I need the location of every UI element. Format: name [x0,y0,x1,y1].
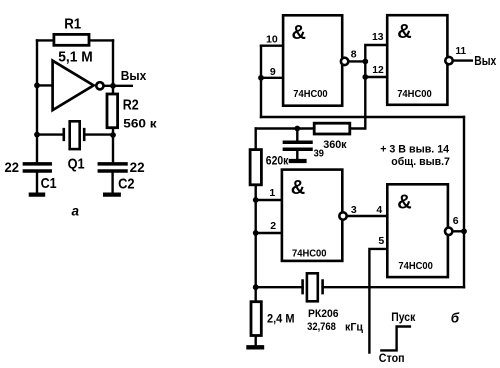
svg-text:Вых: Вых [121,68,147,83]
svg-text:74НС00: 74НС00 [293,89,327,100]
wire C2 to ground [111,173,113,193]
node pin 12 junction [362,74,368,80]
svg-text:R1: R1 [64,16,81,33]
capacitor 39 [284,129,311,160]
wire output 3 to pin 4 [348,215,387,217]
node pin 1 junction [253,197,259,203]
inverter U1 [53,61,104,110]
pin 9 wire [261,77,282,79]
svg-text:C1: C1 [41,175,57,192]
svg-text:4: 4 [376,204,382,216]
wire R1 right lead [91,39,114,41]
svg-text:5,1 М: 5,1 М [58,48,92,65]
svg-text:11: 11 [456,45,467,57]
capacitor C1 [24,164,50,171]
wire 620k bottom rail [254,186,256,287]
svg-text:12: 12 [372,64,384,76]
wire right rail b [463,117,465,287]
svg-text:1: 1 [269,187,275,199]
svg-text:22: 22 [130,160,145,175]
svg-text:74НС00: 74НС00 [397,89,432,100]
svg-text:32,768: 32,768 [307,321,336,333]
node output 6 junction [461,228,467,234]
svg-text:3: 3 [351,204,357,216]
resistor 2.4M [251,302,261,336]
svg-text:6: 6 [453,215,459,227]
svg-text:общ. выв.7: общ. выв.7 [391,156,450,168]
waveform start-stop step [381,327,410,351]
svg-text:&: & [291,177,305,199]
wire left rail circuit a [36,40,38,162]
ground cap 39 [291,159,305,163]
svg-text:РК206: РК206 [308,308,339,320]
svg-text:Q1: Q1 [68,155,85,172]
svg-text:10: 10 [266,33,278,45]
wire output 8 [349,60,365,62]
wire crystal right lead b [323,286,464,288]
svg-text:39: 39 [314,148,324,160]
wire down to 620k [254,129,256,149]
wire to resistor 2.4M [254,287,256,300]
wire crystal Q1 leads [37,133,113,135]
svg-text:&: & [397,21,411,43]
node cap 39 junction [294,126,300,132]
gate U2.3 74HC00 [282,170,347,261]
node 8 junction [362,59,368,65]
crystal ZQ1 PK206 [303,273,323,301]
svg-text:&: & [397,192,411,214]
resistor 360k [314,123,350,134]
wire to pin 13 [365,45,386,61]
wire feedback top rail [261,116,464,118]
node output junction a [110,83,116,89]
svg-text:620к: 620к [266,155,289,167]
gate U2.4 74HC00 [387,184,452,277]
resistor 620k [250,150,261,185]
wire output 6 [453,230,464,232]
node pin 2 junction [253,230,259,236]
node pin 9 junction [258,75,264,81]
node crystal left junction [34,132,40,138]
capacitor C2 [99,164,126,171]
resistor R1 [54,34,89,45]
svg-text:б: б [451,311,460,326]
resistor R2 [107,94,118,128]
wire inverter input [37,84,53,86]
svg-text:Пуск: Пуск [391,312,415,324]
wire right rail circuit a [112,40,114,162]
svg-text:74НС00: 74НС00 [292,249,327,260]
pin 10 wire [261,45,282,47]
svg-text:13: 13 [372,31,384,43]
svg-text:2: 2 [270,220,276,232]
svg-text:+ 3 В выв. 14: + 3 В выв. 14 [380,143,450,155]
svg-text:9: 9 [270,66,276,78]
ground C1 [31,193,43,197]
wire 360k left lead [256,127,313,129]
node inverter input junction [34,83,40,89]
svg-text:C2: C2 [118,176,135,193]
svg-text:R2: R2 [123,96,139,113]
node crystal left junction b [253,284,259,290]
svg-text:8: 8 [351,49,357,61]
svg-text:360к: 360к [323,139,347,151]
ground 2.4M [249,345,263,349]
node R2 bottom junction [110,132,116,138]
pin 2 wire [256,232,281,234]
svg-text:Стоп: Стоп [379,353,405,365]
crystal Q1 [64,121,84,149]
svg-text:22: 22 [5,160,20,175]
pin 1 wire [256,199,281,201]
svg-text:а: а [72,203,80,218]
svg-text:&: & [292,22,306,44]
wire to pin 12 [365,61,386,77]
svg-text:74НС00: 74НС00 [398,261,433,272]
gate U2.1 74HC00 [283,15,348,105]
wire C1 to ground [36,173,38,193]
wire output 11 [454,59,472,61]
wire 2.4M to ground [254,337,256,345]
pin 5 wire [369,249,386,353]
svg-text:кГц: кГц [345,321,363,333]
wire node 12 down to 360k [351,77,365,129]
svg-text:2,4 М: 2,4 М [267,314,295,326]
svg-text:Вых: Вых [474,54,496,68]
wire input rail b [260,46,262,117]
wire output stub Vykh a [104,85,132,87]
ground C2 [105,193,119,197]
svg-text:5: 5 [378,235,384,247]
wire crystal left lead b [256,286,303,288]
svg-text:560 к: 560 к [123,116,157,130]
wire R1 left lead [37,39,53,41]
gate U2.2 74HC00 [387,15,452,105]
